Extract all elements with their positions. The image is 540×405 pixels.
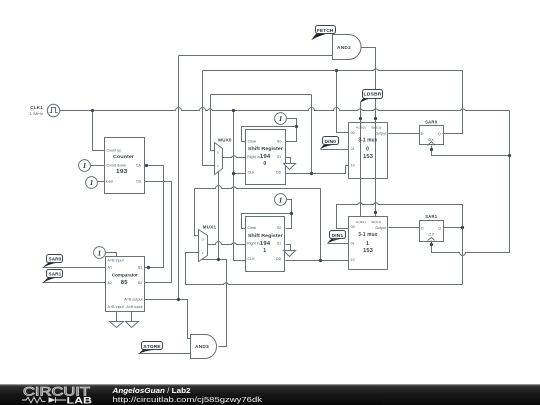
flag STORE (139, 350, 153, 354)
wire LDSBR to mux select A(S0) column (360, 103, 362, 217)
shift register SR1 box (246, 217, 285, 272)
flag SAR1 (43, 278, 57, 283)
wire SR1 OD feedback bridge y=188.9 (195, 186, 321, 189)
svg-text:S0: S0 (277, 139, 282, 143)
svg-text:A(S0): A(S0) (356, 126, 366, 130)
svg-text:10: 10 (351, 164, 355, 168)
svg-text:1: 1 (279, 196, 283, 204)
svg-text:FETCH: FETCH (317, 28, 334, 33)
svg-text:Shift Register: Shift Register (248, 146, 283, 151)
SAR1 clock edge triangle (428, 238, 435, 241)
flag LDSBR (360, 98, 374, 103)
wire bus70 branch to mux0 input 00 (337, 71, 349, 133)
and gate AND2 body (333, 35, 361, 60)
svg-text:194: 194 (260, 241, 271, 247)
node CA pin joint (145, 164, 148, 167)
svg-text:1: 1 (279, 115, 283, 123)
svg-text:Clear: Clear (248, 226, 258, 230)
wire MUX0 output to SR0 Right in (223, 156, 246, 158)
svg-text:194: 194 (260, 154, 271, 160)
svg-text:OD: OD (276, 257, 282, 261)
wire DIN0 to mux0 input 01 (321, 149, 349, 151)
logo diode (49, 397, 56, 403)
wire bridge94 riser to OD0 node (311, 95, 313, 174)
svg-text:AngelosGuan / Lab2: AngelosGuan / Lab2 (111, 386, 190, 395)
logic 1 source V1 circle (79, 160, 91, 172)
node SAR0 clock stem dot (430, 148, 433, 151)
svg-text:00: 00 (351, 131, 355, 135)
svg-text:Clear: Clear (248, 139, 258, 143)
wire SAR0 flag to comparator A1 (43, 267, 106, 269)
logic 1 source V2 circle (86, 177, 98, 189)
wire logic-1 to load (98, 181, 105, 183)
wire bridge188 riser to MUX1 input 0 (195, 189, 199, 236)
svg-text:1: 1 (202, 251, 204, 255)
wire AND2 input 2 horizontal (179, 55, 333, 57)
svg-text:A<B input: A<B input (126, 305, 142, 309)
svg-text:CLK1: CLK1 (30, 105, 43, 110)
wire SR0 S1 to ground (286, 158, 291, 164)
svg-text:3-1 mux: 3-1 mux (358, 138, 377, 144)
svg-text:DIN0: DIN0 (325, 139, 337, 144)
svg-text:10: 10 (351, 258, 355, 262)
wire CLK bus y=110 with hops (60, 108, 510, 111)
node SR1 clear bridge joint (290, 212, 293, 215)
mux MUX0 trapezoid (215, 143, 223, 175)
svg-text:CA: CA (136, 164, 142, 168)
svg-text:3-1 mux: 3-1 mux (358, 232, 377, 238)
node right clock column joint (508, 154, 511, 157)
node CLK-counter junction (91, 109, 94, 112)
d flip-flop SAR0 box (420, 126, 444, 145)
wire OD0 feedback bridge y=94.7 (211, 94, 312, 96)
svg-text:A2: A2 (108, 281, 113, 285)
wire counter CA to comparator B1 (145, 166, 164, 268)
node A=B branch (177, 298, 180, 301)
svg-text:CLK: CLK (428, 232, 434, 236)
flag DIN0 (320, 145, 333, 150)
flag SAR0 (43, 263, 57, 268)
wire DIN1 to mux1 input 01 (328, 243, 349, 245)
wire SAR0 Q riser to bus70 (443, 71, 463, 134)
logic 1 source V4 circle (SR1) (275, 194, 287, 206)
wire comparator A<B input to ground (131, 312, 133, 322)
flag DIN1 (327, 239, 340, 244)
wire mux1 output to SAR1 D (389, 227, 420, 229)
footer bar (0, 384, 540, 405)
node B(S1) pin dot upper (374, 117, 377, 120)
wire SR1 OD to mux1 input 10 (286, 260, 349, 262)
svg-text:Count up: Count up (106, 148, 121, 152)
wire CLK to counter Count up (93, 111, 105, 151)
svg-text:1: 1 (98, 249, 102, 257)
ground comparator A&lt;B (126, 322, 139, 328)
node OD0 branch (310, 172, 313, 175)
3-1 mux 0 box (349, 123, 388, 179)
svg-text:LDSBR: LDSBR (364, 92, 383, 97)
svg-text:B(S1): B(S1) (372, 126, 382, 130)
svg-text:1: 1 (217, 164, 219, 168)
svg-text:Right in: Right in (247, 155, 260, 159)
wire SAR1 Q feedback column, bus y=204.7 and drop to mux1 input 00 (337, 203, 463, 285)
svg-text:B(S1): B(S1) (372, 220, 382, 224)
svg-text:A=B input: A=B input (108, 258, 124, 262)
svg-text:CLK: CLK (428, 138, 434, 142)
svg-text:0: 0 (263, 161, 266, 167)
svg-text:1: 1 (263, 248, 266, 254)
svg-text:DIN1: DIN1 (332, 233, 344, 238)
wire logic-1 to Count down (91, 165, 105, 167)
svg-text:AND3: AND3 (195, 344, 209, 349)
node SR0 CLK branch (232, 172, 235, 175)
wire CLK column x=233.8 (234, 111, 246, 261)
svg-text:Output: Output (375, 226, 386, 230)
wire AND2 output to mux select B(S1) column (362, 48, 376, 217)
logic 1 source V5 circle (comparator) (94, 247, 106, 259)
svg-text:CLK: CLK (248, 257, 256, 261)
wire MUX0 select column (218, 172, 220, 260)
node B(S1) pin dot lower (374, 211, 377, 214)
wire logic-1 to comparator A=B input (105, 253, 117, 257)
wire bridge188 riser to OD1 node (320, 189, 322, 261)
CLK1 square wave glyph (50, 108, 58, 113)
svg-text:AND2: AND2 (337, 45, 351, 50)
wire bridge94 riser to MUX0 input 0 (211, 95, 215, 151)
svg-text:Output: Output (375, 132, 386, 136)
wire logic-1 to SR1 S0 (286, 200, 292, 229)
svg-text:Q: Q (438, 226, 441, 230)
wire SR1 clear bridge (242, 214, 292, 229)
svg-text:Comparator: Comparator (112, 273, 138, 278)
wire SR0 OD to mux0 input 10 (286, 166, 349, 174)
svg-text:1: 1 (366, 241, 369, 247)
svg-text:A(S0): A(S0) (356, 220, 366, 224)
svg-text:http://circuitlab.com/cj585gzw: http://circuitlab.com/cj585gzwy76dk (113, 395, 263, 404)
logo squiggle resistor (22, 397, 46, 403)
svg-text:Counter: Counter (113, 154, 134, 159)
svg-text:A>B input: A>B input (108, 305, 124, 309)
svg-text:MUX0: MUX0 (218, 138, 232, 143)
wire bus70 riser to MUX0 input 1 (203, 71, 215, 166)
svg-text:1: 1 (83, 162, 87, 170)
svg-text:S1: S1 (277, 242, 282, 246)
wire logic-1 to SR0 S0 (286, 119, 297, 142)
svg-text:SAR0: SAR0 (49, 257, 62, 262)
svg-text:0: 0 (202, 237, 204, 241)
node bus70 branch (335, 69, 338, 72)
svg-text:A1: A1 (108, 266, 113, 270)
wire MUX1 output to SR1 Right in (208, 242, 246, 245)
svg-text:B2: B2 (138, 281, 143, 285)
wire SAR1 flag to comparator A2 (43, 282, 106, 284)
voltage source CLK1 circle (47, 104, 59, 116)
and gate AND3 body (191, 335, 217, 359)
svg-text:D: D (421, 132, 424, 136)
wire SAR1 Q to feedback column (444, 227, 463, 229)
svg-text:1 MHz: 1 MHz (29, 112, 43, 116)
node B1 pin joint (147, 266, 150, 269)
svg-text:D: D (421, 226, 424, 230)
wire SAR1 Q feedback long line y=283.9 to MUX1 input 1 (186, 253, 463, 285)
svg-text:153: 153 (363, 248, 373, 254)
svg-text:00: 00 (351, 225, 355, 229)
svg-text:STORE: STORE (143, 344, 160, 349)
wire counter CB to comparator B2 (145, 182, 172, 283)
logic 1 source V3 circle (SR0) (275, 113, 287, 125)
svg-text:SAR0: SAR0 (425, 120, 437, 125)
svg-text:Right in: Right in (247, 242, 260, 246)
wire right clock column and SAR1 CLK return (432, 111, 510, 256)
node SAR1 clock stem dot (430, 243, 433, 246)
3-1 mux 1 box (349, 217, 388, 270)
svg-text:Q: Q (438, 132, 441, 136)
node SR0 clear bridge joint (295, 125, 298, 128)
svg-text:LAB: LAB (67, 395, 93, 405)
shift register SR0 box (246, 130, 286, 185)
wire SAR0 CLK to right clock column (432, 146, 510, 156)
wire STORE to AND3 input 2 (139, 353, 191, 355)
node SAR1 Q joint (461, 226, 464, 229)
SAR0 clock edge triangle (428, 142, 435, 146)
svg-text:B1: B1 (138, 266, 143, 270)
wire comparator A=B to AND2 input 2 riser (178, 56, 180, 300)
counter CNT1 box (105, 138, 145, 194)
svg-text:S1: S1 (277, 155, 282, 159)
wire SR0 clear bridge (242, 127, 297, 142)
wire SAR0 Q feedback bus y=70.7 (203, 69, 463, 71)
wire SR1 S1 to ground (286, 245, 291, 251)
ground SR0 S1 (284, 164, 296, 170)
wire mux0 output to SAR0 D (389, 133, 420, 135)
svg-text:A=B output: A=B output (124, 297, 142, 301)
svg-text:01: 01 (351, 147, 355, 151)
svg-text:CB: CB (136, 179, 142, 183)
svg-text:load: load (106, 179, 113, 183)
mux MUX1 trapezoid (199, 230, 208, 262)
svg-text:85: 85 (121, 280, 128, 286)
svg-text:1: 1 (90, 179, 94, 187)
node A(S0) pin dot (359, 117, 362, 120)
svg-text:Shift Register: Shift Register (248, 233, 283, 238)
comparator 85 box (106, 257, 145, 312)
wire select net: MUX1 select, MUX0 select column junction, AND3 output (203, 259, 227, 347)
wire comparator A>B input to ground (116, 312, 118, 322)
svg-text:153: 153 (363, 154, 373, 160)
svg-text:193: 193 (116, 169, 128, 175)
d flip-flop SAR1 box (420, 221, 444, 242)
wire CLK column branch to SR0 CLK (234, 173, 246, 175)
svg-text:SAR1: SAR1 (49, 272, 62, 277)
wire comparator A=B output to AND3 input 1 (145, 300, 191, 339)
svg-text:0: 0 (217, 150, 219, 154)
node OD1 branch (319, 259, 322, 262)
svg-text:SAR1: SAR1 (425, 214, 437, 219)
ground SR1 S1 (284, 251, 296, 257)
svg-text:01: 01 (351, 241, 355, 245)
svg-text:CLK: CLK (248, 170, 256, 174)
svg-text:OD: OD (276, 170, 282, 174)
ground comparator A>B (110, 322, 124, 328)
node select column junction (217, 258, 220, 261)
svg-text:0: 0 (366, 146, 369, 152)
svg-text:MUX1: MUX1 (203, 225, 217, 230)
svg-text:Count down: Count down (106, 164, 126, 168)
svg-text:S0: S0 (277, 226, 282, 230)
flag FETCH (311, 34, 327, 41)
node CLK-column junction (232, 109, 235, 112)
